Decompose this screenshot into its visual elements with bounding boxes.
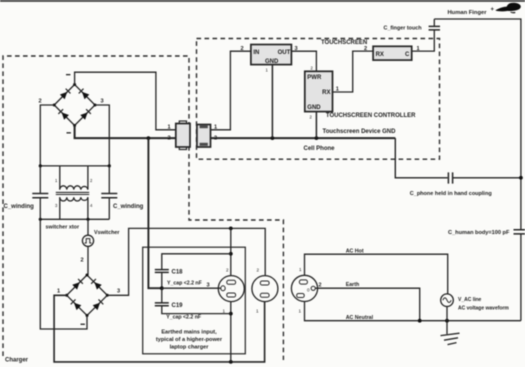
svg-text:2: 2 xyxy=(39,98,42,104)
junction xyxy=(271,136,275,140)
svg-text:AC voltage waveform: AC voltage waveform xyxy=(458,306,509,312)
svg-text:1: 1 xyxy=(336,86,339,92)
wire B1 top to connector J1 pin 1 xyxy=(75,72,176,130)
svg-text:TOUCHSCREEN: TOUCHSCREEN xyxy=(321,40,367,46)
box earthed mains input xyxy=(143,247,246,354)
AC plug (charger mains plug) xyxy=(252,268,278,314)
svg-text:2: 2 xyxy=(310,115,313,120)
svg-text:1: 1 xyxy=(299,267,302,272)
svg-text:C_human body=100 pF: C_human body=100 pF xyxy=(448,230,510,236)
AC source V_AC line xyxy=(441,294,510,321)
junction xyxy=(229,227,233,231)
svg-text:4: 4 xyxy=(90,203,93,208)
svg-text:+: + xyxy=(491,7,495,13)
charger enclosure (dashed) xyxy=(3,56,283,360)
svg-text:2: 2 xyxy=(81,258,84,264)
wire left plug top pin drop xyxy=(230,228,232,275)
wire U1 GND stub down xyxy=(315,112,317,139)
svg-text:1: 1 xyxy=(55,178,58,183)
wire node to earthed plug hole (pin 3) xyxy=(162,287,221,289)
wire B1 left node down to transformer rail xyxy=(40,105,54,166)
regulator U2 (IN/OUT/GND) xyxy=(241,45,298,65)
svg-text:switcher xtor: switcher xtor xyxy=(46,225,80,231)
capacitor C_phone held in hand coupling xyxy=(410,172,521,196)
svg-text:C_phone held in hand coupling: C_phone held in hand coupling xyxy=(410,191,492,197)
svg-text:Touchscreen Device GND: Touchscreen Device GND xyxy=(323,129,397,135)
svg-text:C18: C18 xyxy=(172,270,184,276)
svg-text:V_AC line: V_AC line xyxy=(458,297,482,303)
svg-text:laptop charger: laptop charger xyxy=(170,344,210,350)
transformer T1 xyxy=(39,164,111,221)
svg-text:RX: RX xyxy=(322,90,330,96)
cell phone enclosure (dashed) xyxy=(197,39,440,160)
wire H2 to C18 top xyxy=(162,254,231,270)
svg-text:Earth: Earth xyxy=(346,282,360,288)
AC outlet (wall receptacle) xyxy=(291,267,321,314)
svg-text:IN: IN xyxy=(253,50,259,56)
svg-text:AC Hot: AC Hot xyxy=(346,248,364,254)
wire bold GND drop to Y-cap node xyxy=(148,138,161,288)
svg-text:2: 2 xyxy=(226,268,229,273)
svg-text:typical of a higher-power: typical of a higher-power xyxy=(156,337,223,343)
wire B2 node 3 riser to plugs (AC hot inside charger) xyxy=(107,228,265,295)
junction xyxy=(229,312,233,316)
svg-text:C19: C19 xyxy=(172,303,184,309)
svg-text:2: 2 xyxy=(168,136,171,142)
ground (chassis) xyxy=(441,321,460,345)
svg-text:1: 1 xyxy=(223,309,226,314)
wire U1 RX to touchscreen RX box xyxy=(333,51,374,92)
svg-text:1: 1 xyxy=(299,309,302,314)
bridge rectifier B2 xyxy=(57,274,120,325)
svg-text:1: 1 xyxy=(57,289,60,295)
svg-text:3: 3 xyxy=(117,289,120,295)
svg-text:Y_cap <2.2 nF: Y_cap <2.2 nF xyxy=(166,314,201,320)
svg-text:Cell Phone: Cell Phone xyxy=(304,146,336,152)
human finger icon (hand) xyxy=(495,3,520,14)
svg-text:2: 2 xyxy=(241,46,244,52)
svg-text:Earthed mains input,: Earthed mains input, xyxy=(161,330,217,336)
svg-text:PWR: PWR xyxy=(307,75,322,81)
svg-text:C_winding: C_winding xyxy=(113,204,144,210)
junction xyxy=(418,319,422,323)
svg-text:3: 3 xyxy=(101,98,104,104)
svg-text:OUT: OUT xyxy=(278,50,291,56)
svg-text:1: 1 xyxy=(266,68,269,73)
wire left plug bottom pin drop xyxy=(230,302,232,362)
capacitor C_winding (left) xyxy=(4,166,49,219)
junction node between C18/C19 xyxy=(160,286,164,290)
touchscreen RX electrode U3 xyxy=(373,46,420,60)
svg-text:0: 0 xyxy=(307,288,310,293)
svg-text:2: 2 xyxy=(90,178,93,183)
svg-text:2: 2 xyxy=(311,66,314,71)
junction xyxy=(519,176,523,180)
wire hand to finger cap and right rail xyxy=(434,19,521,230)
wire U2 GND stub down xyxy=(271,65,273,139)
junction xyxy=(229,252,233,256)
svg-text:GND: GND xyxy=(307,105,321,111)
svg-text:RX: RX xyxy=(376,52,384,58)
svg-text:C_finger touch: C_finger touch xyxy=(384,25,422,31)
svg-text:TOUCHSCREEN CONTROLLER: TOUCHSCREEN CONTROLLER xyxy=(326,113,416,119)
touchscreen controller U1 xyxy=(305,71,333,111)
junction xyxy=(229,360,233,364)
svg-text:2: 2 xyxy=(364,46,367,52)
capacitor C18 xyxy=(155,270,202,289)
wire J2 pin1 up to regulator IN xyxy=(211,51,251,130)
wire AC Hot xyxy=(305,254,448,294)
svg-text:Charger: Charger xyxy=(5,358,29,364)
svg-text:1: 1 xyxy=(168,124,171,130)
svg-text:Human Finger: Human Finger xyxy=(448,10,488,16)
svg-text:C: C xyxy=(405,52,410,58)
junction xyxy=(147,136,151,140)
svg-text:2: 2 xyxy=(257,268,260,273)
svg-text:Y_cap <2.2 nF: Y_cap <2.2 nF xyxy=(167,280,202,286)
junction xyxy=(445,319,449,323)
wire AC Neutral xyxy=(305,302,521,321)
wire phone GND to C_phone (hand coupling) xyxy=(395,138,447,178)
wire B2 node 1 to long bottom return xyxy=(54,295,265,362)
capacitor C19 xyxy=(155,288,231,320)
net Touchscreen Device GND (bold) xyxy=(211,137,396,139)
capacitor C_winding (right) xyxy=(101,166,143,219)
svg-text:3: 3 xyxy=(207,283,210,289)
switching source Vswitcher xyxy=(81,219,121,275)
wire U3 pin1 to C_finger xyxy=(412,30,435,51)
svg-text:Vswitcher: Vswitcher xyxy=(94,230,120,236)
svg-text:AC Neutral: AC Neutral xyxy=(346,315,374,321)
AC plug (earthed, inside box) xyxy=(218,268,244,314)
bridge rectifier B1 xyxy=(39,74,104,134)
connector J1 (charger output) xyxy=(168,121,191,150)
wire Earth xyxy=(315,288,419,321)
svg-text:3: 3 xyxy=(55,203,58,208)
wire B1 bottom to connector J1 pin 2 (bold DC- net) xyxy=(75,126,176,139)
svg-text:C_winding: C_winding xyxy=(4,204,35,210)
capacitor C_finger touch xyxy=(384,19,441,31)
wire B1 right node down to transformer rail xyxy=(95,105,109,166)
wire U2 OUT to controller PWR xyxy=(291,51,316,71)
connector J2 (phone input) xyxy=(197,124,217,147)
top border line xyxy=(0,0,525,2)
junction xyxy=(315,136,319,140)
wire B2 bottom node to left rail xyxy=(40,219,87,329)
svg-text:1: 1 xyxy=(256,309,259,314)
svg-text:GND: GND xyxy=(265,59,279,65)
capacitor C_human body xyxy=(448,230,525,321)
